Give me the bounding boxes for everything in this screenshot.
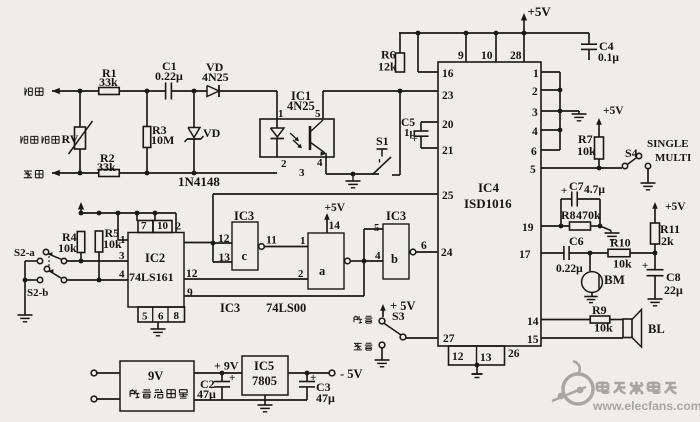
svg-text:9V: 9V bbox=[148, 369, 163, 383]
svg-text:2: 2 bbox=[298, 268, 304, 280]
svg-text:12: 12 bbox=[452, 351, 464, 363]
svg-text:47μ: 47μ bbox=[197, 387, 216, 401]
svg-text:2: 2 bbox=[532, 86, 538, 98]
svg-text:4: 4 bbox=[317, 157, 323, 169]
svg-text:9: 9 bbox=[458, 50, 464, 62]
svg-text:20: 20 bbox=[442, 119, 454, 131]
svg-text:R8: R8 bbox=[561, 208, 576, 222]
svg-text:S4: S4 bbox=[625, 146, 638, 160]
svg-text:C8: C8 bbox=[666, 270, 681, 284]
svg-text:5: 5 bbox=[315, 108, 321, 120]
svg-text:S2-a: S2-a bbox=[14, 247, 35, 259]
svg-text:ISD1016: ISD1016 bbox=[464, 196, 512, 211]
svg-text:24: 24 bbox=[441, 247, 453, 259]
svg-text:23: 23 bbox=[442, 90, 454, 102]
svg-text:25: 25 bbox=[442, 190, 454, 202]
svg-text:7: 7 bbox=[141, 220, 147, 232]
svg-text:C4: C4 bbox=[599, 39, 614, 53]
svg-text:10: 10 bbox=[157, 220, 169, 232]
svg-text:9: 9 bbox=[187, 287, 193, 299]
svg-text:2k: 2k bbox=[661, 234, 674, 248]
svg-text:+: + bbox=[412, 133, 418, 145]
svg-text:6: 6 bbox=[421, 240, 427, 252]
svg-text:3: 3 bbox=[119, 250, 125, 262]
svg-text:14: 14 bbox=[329, 220, 341, 232]
svg-text:+: + bbox=[642, 260, 648, 272]
svg-text:1: 1 bbox=[533, 68, 539, 80]
svg-text:15: 15 bbox=[527, 334, 539, 346]
svg-text:22μ: 22μ bbox=[664, 283, 683, 297]
svg-text:1: 1 bbox=[278, 108, 284, 120]
svg-text:BL: BL bbox=[648, 322, 665, 336]
svg-text:+ 9V: + 9V bbox=[214, 359, 239, 373]
svg-text:6: 6 bbox=[531, 146, 537, 158]
svg-text:+5V: +5V bbox=[528, 4, 552, 19]
svg-text:c: c bbox=[242, 249, 248, 263]
svg-text:4N25: 4N25 bbox=[287, 99, 315, 113]
svg-text:17: 17 bbox=[519, 249, 531, 261]
svg-text:IC3: IC3 bbox=[386, 209, 406, 223]
svg-text:10: 10 bbox=[481, 50, 493, 62]
svg-text:33k: 33k bbox=[99, 75, 118, 89]
svg-text:47μ: 47μ bbox=[316, 391, 335, 405]
svg-text:27: 27 bbox=[443, 333, 455, 345]
svg-text:+: + bbox=[229, 372, 235, 384]
svg-text:R10: R10 bbox=[610, 236, 631, 250]
svg-text:2: 2 bbox=[281, 158, 287, 170]
svg-text:2: 2 bbox=[176, 221, 182, 233]
svg-text:0.22μ: 0.22μ bbox=[155, 69, 183, 83]
svg-text:10k: 10k bbox=[613, 257, 632, 271]
svg-text:C7: C7 bbox=[569, 179, 584, 193]
svg-text:5: 5 bbox=[142, 311, 148, 323]
svg-text:+5V: +5V bbox=[603, 105, 624, 117]
svg-text:IC4: IC4 bbox=[478, 180, 499, 195]
svg-text:21: 21 bbox=[442, 145, 454, 157]
svg-text:1N4148: 1N4148 bbox=[178, 174, 220, 189]
svg-text:RV: RV bbox=[62, 132, 79, 146]
svg-text:a: a bbox=[319, 264, 326, 278]
svg-text:www.elecfans.com: www.elecfans.com bbox=[592, 399, 700, 413]
svg-text:74LS00: 74LS00 bbox=[266, 301, 306, 315]
svg-text:0.1μ: 0.1μ bbox=[598, 52, 619, 64]
svg-text:+: + bbox=[561, 185, 567, 197]
svg-text:S2-b: S2-b bbox=[27, 287, 48, 299]
svg-text:1: 1 bbox=[300, 235, 306, 247]
svg-text:10k: 10k bbox=[58, 241, 77, 255]
svg-text:7805: 7805 bbox=[252, 374, 277, 388]
svg-text:IC5: IC5 bbox=[254, 359, 274, 373]
svg-text:MULTI: MULTI bbox=[655, 152, 691, 164]
svg-text:3: 3 bbox=[299, 167, 305, 179]
svg-text:6: 6 bbox=[158, 311, 164, 323]
svg-text:C6: C6 bbox=[569, 234, 584, 248]
svg-text:10k: 10k bbox=[577, 144, 596, 158]
svg-text:S3: S3 bbox=[392, 309, 405, 323]
svg-text:12k: 12k bbox=[378, 60, 397, 74]
svg-text:13: 13 bbox=[480, 352, 492, 364]
svg-text:- 5V: - 5V bbox=[340, 367, 363, 381]
svg-text:4: 4 bbox=[119, 269, 125, 281]
svg-text:11: 11 bbox=[266, 235, 277, 247]
svg-text:19: 19 bbox=[522, 222, 534, 234]
svg-text:BM: BM bbox=[604, 272, 625, 287]
svg-text:3: 3 bbox=[532, 107, 538, 119]
svg-text:10k: 10k bbox=[594, 321, 613, 335]
svg-text:SINGLE: SINGLE bbox=[647, 138, 689, 150]
svg-text:12: 12 bbox=[218, 233, 230, 245]
svg-text:4N25: 4N25 bbox=[202, 70, 229, 84]
svg-text:470k: 470k bbox=[576, 208, 601, 222]
svg-text:0.22μ: 0.22μ bbox=[556, 263, 583, 275]
svg-text:VD: VD bbox=[203, 126, 221, 140]
svg-text:4: 4 bbox=[532, 126, 538, 138]
svg-text:74LS161: 74LS161 bbox=[129, 270, 174, 284]
svg-text:IC3: IC3 bbox=[234, 209, 254, 223]
svg-text:26: 26 bbox=[508, 348, 520, 360]
svg-text:4: 4 bbox=[375, 250, 381, 262]
svg-text:S1: S1 bbox=[376, 134, 389, 148]
svg-text:28: 28 bbox=[510, 50, 522, 62]
svg-text:10M: 10M bbox=[151, 133, 174, 147]
svg-text:16: 16 bbox=[442, 68, 454, 80]
svg-text:+5V: +5V bbox=[665, 201, 686, 213]
svg-text:13: 13 bbox=[219, 252, 231, 264]
svg-text:IC2: IC2 bbox=[145, 251, 165, 265]
svg-text:R9: R9 bbox=[592, 303, 607, 317]
svg-text:IC3: IC3 bbox=[220, 301, 240, 315]
svg-text:8: 8 bbox=[174, 310, 180, 322]
svg-text:5: 5 bbox=[530, 164, 536, 176]
svg-text:+5V: +5V bbox=[325, 202, 346, 214]
svg-text:5: 5 bbox=[374, 222, 380, 234]
svg-text:14: 14 bbox=[527, 316, 539, 328]
svg-text:b: b bbox=[391, 252, 398, 266]
svg-text:4.7μ: 4.7μ bbox=[584, 184, 605, 196]
svg-text:1: 1 bbox=[120, 234, 126, 246]
svg-text:33k: 33k bbox=[97, 160, 116, 174]
